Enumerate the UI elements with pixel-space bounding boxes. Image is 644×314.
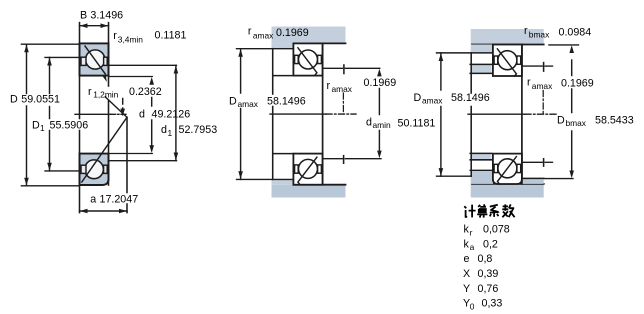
centerline bbox=[468, 113, 525, 115]
recess left bottom bbox=[81, 165, 86, 173]
shaft block top left (blue) bbox=[471, 45, 493, 53]
spacer ring top (blue lip) bbox=[471, 64, 492, 73]
svg-text:0.1969: 0.1969 bbox=[276, 27, 309, 39]
svg-text:e: e bbox=[464, 253, 470, 265]
svg-text:r: r bbox=[327, 80, 331, 92]
left reference line bbox=[470, 53, 472, 93]
left face extension line bbox=[79, 23, 81, 119]
svg-text:1: 1 bbox=[40, 123, 45, 133]
contact line arrow bbox=[103, 75, 107, 83]
contact line bottom bbox=[497, 157, 516, 184]
bore line stub bottom bbox=[273, 153, 294, 155]
housing band top (blue) bbox=[471, 29, 544, 45]
svg-text:r: r bbox=[470, 227, 473, 237]
svg-text:59.0551: 59.0551 bbox=[21, 94, 60, 106]
r amax fillet mark (bottom right) bbox=[522, 161, 542, 163]
recess left top bbox=[295, 55, 299, 63]
r amax fillet mark (top right) bbox=[323, 67, 343, 69]
dimension d extension bottom bbox=[109, 153, 152, 155]
svg-text:amax: amax bbox=[332, 84, 353, 94]
recess right bottom bbox=[104, 165, 108, 173]
svg-text:D: D bbox=[229, 95, 237, 107]
svg-text:d: d bbox=[139, 108, 145, 120]
dimension Damax extension bottom bbox=[437, 175, 471, 177]
svg-text:52.7953: 52.7953 bbox=[179, 124, 218, 136]
recess left bottom bbox=[494, 164, 498, 172]
recess left bottom bbox=[295, 165, 299, 173]
svg-text:D: D bbox=[557, 115, 565, 127]
housing band top (blue) bbox=[272, 27, 346, 44]
recess right bottom bbox=[318, 165, 322, 173]
svg-text:0,39: 0,39 bbox=[478, 268, 499, 280]
svg-text:r: r bbox=[248, 26, 252, 38]
dimension Damax extension bottom bbox=[237, 178, 294, 180]
svg-text:55.5906: 55.5906 bbox=[50, 119, 89, 131]
title 计算系数 (drawn glyphs) bbox=[464, 204, 514, 217]
contact angle line top bbox=[85, 46, 105, 74]
svg-text:0,33: 0,33 bbox=[482, 298, 503, 310]
svg-text:3.1496: 3.1496 bbox=[90, 10, 123, 22]
spacer ring bottom (blue lip) bbox=[471, 153, 492, 159]
dimension d1 extension top bbox=[109, 64, 177, 66]
svg-text:0.0984: 0.0984 bbox=[559, 27, 592, 39]
bearing inner-ring section bottom (blue block, rounded outer corner) bbox=[80, 154, 109, 185]
svg-text:17.2047: 17.2047 bbox=[100, 193, 139, 205]
ball top bbox=[498, 51, 517, 70]
svg-text:D: D bbox=[10, 94, 18, 106]
dimension Dbmax line bbox=[569, 45, 574, 53]
dimension d extension top bbox=[109, 76, 152, 78]
recess right top bbox=[517, 56, 521, 64]
svg-text:d: d bbox=[161, 124, 167, 136]
dimension d line bbox=[149, 77, 154, 85]
svg-text:Y: Y bbox=[463, 283, 470, 295]
bearing section bottom (outline) bbox=[293, 154, 322, 185]
dimension D1 extension top bbox=[45, 56, 80, 58]
contact point extension line bbox=[126, 117, 128, 192]
svg-text:amax: amax bbox=[253, 31, 274, 41]
bearing section top (outline) bbox=[293, 43, 322, 75]
recess right bottom bbox=[517, 164, 521, 172]
contact line top bbox=[298, 48, 317, 75]
svg-text:1,2min: 1,2min bbox=[93, 90, 118, 100]
svg-text:d: d bbox=[366, 116, 372, 128]
svg-text:amax: amax bbox=[532, 81, 553, 91]
housing band bottom (blue) bbox=[272, 185, 346, 198]
contact line bottom bbox=[298, 157, 317, 184]
svg-text:0,8: 0,8 bbox=[478, 253, 493, 265]
svg-text:bmax: bmax bbox=[566, 118, 587, 128]
shaft block top edge line bbox=[437, 52, 494, 54]
svg-text:r: r bbox=[88, 86, 92, 98]
recess right top bbox=[104, 57, 108, 65]
r amax fillet mark (top right) bbox=[522, 65, 542, 67]
svg-text:a: a bbox=[90, 193, 96, 205]
svg-text:0,76: 0,76 bbox=[478, 283, 499, 295]
housing shoulder lip top bbox=[272, 43, 294, 48]
bearing section top (outline) bbox=[493, 45, 522, 77]
right face extension line bbox=[108, 23, 110, 86]
bearing axis centerline bbox=[75, 113, 111, 115]
dimension Dbmax extension top bbox=[549, 44, 579, 46]
dimension Dbmax extension bottom bbox=[544, 178, 573, 180]
right face line bbox=[322, 43, 324, 184]
recess right top bbox=[318, 55, 322, 63]
dimension Damax line bbox=[240, 49, 242, 93]
housing band bottom edge line bbox=[472, 183, 544, 185]
svg-text:r: r bbox=[527, 77, 531, 89]
dimension D1 extension bottom bbox=[45, 170, 80, 172]
svg-text:0: 0 bbox=[470, 301, 475, 311]
r amax fillet mark (bottom right) bbox=[323, 158, 343, 160]
recess left top bbox=[494, 56, 498, 64]
housing band bottom edge line bbox=[293, 184, 345, 186]
计 bbox=[464, 205, 475, 218]
housing shoulder lip bottom bbox=[272, 179, 294, 184]
left reference line bbox=[272, 49, 274, 94]
right face line bbox=[521, 45, 523, 184]
svg-text:0,078: 0,078 bbox=[483, 224, 510, 236]
svg-text:0,2: 0,2 bbox=[483, 238, 498, 250]
svg-text:0.1181: 0.1181 bbox=[155, 29, 187, 41]
ball top bbox=[86, 50, 105, 69]
bearing outer-ring section top (blue block) bbox=[80, 43, 109, 75]
算 bbox=[477, 204, 487, 217]
ball top bbox=[299, 50, 318, 69]
数 bbox=[502, 204, 514, 217]
dimension Damax extension top bbox=[237, 48, 294, 50]
dimension a line bbox=[80, 210, 128, 212]
svg-text:49.2126: 49.2126 bbox=[152, 108, 191, 120]
housing band bottom (blue) bbox=[471, 184, 544, 198]
svg-text:58.1496: 58.1496 bbox=[267, 95, 306, 107]
ball bottom bbox=[85, 160, 104, 179]
housing band top edge line bbox=[472, 44, 544, 46]
svg-text:1: 1 bbox=[168, 128, 173, 138]
svg-text:3,4min: 3,4min bbox=[118, 35, 143, 45]
ball bottom bbox=[498, 159, 517, 178]
dimension d1 line bbox=[175, 65, 177, 160]
svg-text:X: X bbox=[463, 268, 470, 280]
ball bottom bbox=[299, 159, 318, 178]
svg-text:r: r bbox=[113, 30, 117, 42]
svg-text:D: D bbox=[32, 119, 40, 131]
svg-text:50.1181: 50.1181 bbox=[398, 118, 436, 130]
dimension d1 extension bottom bbox=[109, 160, 177, 162]
r1,2 value arrow bbox=[122, 99, 124, 105]
dimension D1 line bbox=[49, 57, 51, 93]
housing step bottom right (blue) bbox=[522, 178, 544, 184]
svg-text:amax: amax bbox=[238, 99, 259, 109]
svg-text:k: k bbox=[464, 224, 470, 236]
svg-text:k: k bbox=[464, 238, 470, 250]
系 bbox=[490, 205, 499, 217]
svg-text:r: r bbox=[524, 25, 528, 37]
shaft block bottom left (blue) bbox=[471, 170, 493, 184]
bearing section bottom (outline, rounded bottom corners) bbox=[493, 154, 522, 184]
dimension B bbox=[80, 25, 109, 27]
dimension damin line bbox=[377, 69, 382, 77]
svg-text:0.1969: 0.1969 bbox=[364, 77, 397, 89]
svg-text:0.1969: 0.1969 bbox=[561, 78, 594, 90]
centerline bbox=[270, 113, 326, 115]
r1,2 leader line to contact point bbox=[105, 97, 127, 117]
contact angle line bottom bbox=[82, 117, 127, 182]
housing band top edge line bbox=[293, 42, 345, 44]
dimension Damax line bbox=[440, 53, 442, 90]
svg-text:bmax: bmax bbox=[529, 29, 550, 39]
dimension D extension bottom bbox=[21, 185, 79, 187]
svg-text:B: B bbox=[80, 10, 87, 22]
contact line top bbox=[497, 49, 516, 76]
svg-text:58.5433: 58.5433 bbox=[595, 115, 634, 127]
svg-text:0.2362: 0.2362 bbox=[129, 86, 162, 98]
recess left top bbox=[81, 57, 86, 65]
svg-text:58.1496: 58.1496 bbox=[451, 92, 490, 104]
bore line stub top bbox=[273, 75, 294, 77]
svg-text:amax: amax bbox=[422, 96, 443, 106]
svg-text:D: D bbox=[414, 92, 422, 104]
dimension D line bbox=[26, 44, 28, 93]
svg-text:a: a bbox=[470, 242, 475, 252]
dimension D extension top bbox=[21, 43, 79, 45]
svg-text:amin: amin bbox=[373, 120, 391, 130]
